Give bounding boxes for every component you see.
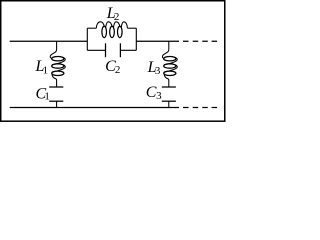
wire L1 top lead with entry curve xyxy=(50,41,56,58)
L3 connector 1 xyxy=(164,58,177,65)
wire top rail left segment xyxy=(10,40,88,42)
wire L2 right lead xyxy=(128,27,137,29)
wire bottom rail xyxy=(10,107,179,109)
svg-text:C1: C1 xyxy=(36,85,50,102)
wire top rail dashed continuation xyxy=(183,40,217,42)
C2 right plate xyxy=(119,43,121,57)
C1 top plate xyxy=(49,86,63,88)
L3 loop 2 xyxy=(164,64,176,68)
border frame xyxy=(1,1,225,121)
L1 loop 2 xyxy=(52,64,64,68)
capacitor C2 xyxy=(87,43,136,57)
L2 hump 4 xyxy=(121,22,127,28)
L2 loop 2 xyxy=(110,26,115,37)
L1 loop 1 xyxy=(52,57,64,61)
L2 hump 3 xyxy=(114,22,120,27)
svg-text:L2: L2 xyxy=(106,5,120,23)
C1 bottom plate xyxy=(49,100,63,102)
wire C2 right lead xyxy=(120,49,136,51)
wire L3 top lead with entry curve xyxy=(162,41,168,58)
L3 connector 2 xyxy=(164,65,177,72)
L3 loop 1 xyxy=(164,57,176,61)
svg-text:C2: C2 xyxy=(105,58,120,76)
svg-text:L3: L3 xyxy=(147,59,161,77)
inductor L2 xyxy=(87,22,136,38)
L2 hump 1 xyxy=(96,22,104,29)
L1 connector 1 xyxy=(52,58,65,65)
wire C2 left lead xyxy=(87,49,105,51)
wire C3 bottom lead xyxy=(168,101,170,107)
L2 loop 3 xyxy=(118,26,123,37)
inductor L1 xyxy=(50,41,65,87)
wire L2 left lead xyxy=(87,27,96,29)
svg-text:L1: L1 xyxy=(35,58,49,77)
C3 bottom plate xyxy=(162,100,176,102)
inductor L3 xyxy=(162,41,177,87)
node tank left junction bar xyxy=(86,28,88,50)
L1 connector 2 xyxy=(52,65,65,72)
capacitor C1 xyxy=(49,87,63,108)
wire C1 bottom lead xyxy=(56,101,58,107)
svg-text:C3: C3 xyxy=(146,84,162,102)
node tank right junction bar xyxy=(135,28,137,50)
C3 top plate xyxy=(162,86,176,88)
L2 loop 1 xyxy=(102,26,107,37)
L2 hump 2 xyxy=(106,22,112,27)
L3 loop 3 xyxy=(164,71,176,75)
C2 left plate xyxy=(105,43,107,57)
L1 loop 3 xyxy=(52,71,64,75)
wire top rail right segment xyxy=(136,40,179,42)
wire L1 bottom exit lead xyxy=(52,75,57,87)
wire bottom rail dashed continuation xyxy=(183,107,217,109)
wire L3 bottom exit lead xyxy=(164,75,169,87)
capacitor C3 xyxy=(162,87,176,108)
